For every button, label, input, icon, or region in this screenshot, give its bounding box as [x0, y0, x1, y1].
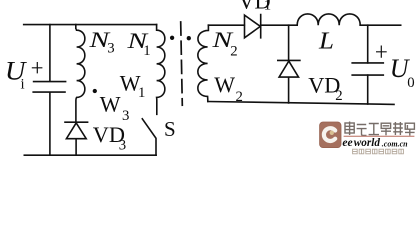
- svg-text:W: W: [214, 72, 235, 97]
- winding N2: [198, 25, 209, 101]
- transformer core (dashed): [181, 22, 183, 105]
- svg-text:1: 1: [143, 43, 150, 59]
- wire left rail lower: [49, 92, 51, 155]
- wire VD2 branch upper: [288, 25, 290, 60]
- svg-text:.com.cn: .com.cn: [382, 139, 408, 148]
- plus sign output: [376, 46, 387, 58]
- capacitor Ci input plates: [33, 82, 65, 93]
- switch S blade: [142, 119, 156, 155]
- svg-text:3: 3: [119, 137, 126, 153]
- svg-text:W: W: [100, 92, 121, 117]
- svg-text:1: 1: [264, 0, 271, 13]
- wire secondary bottom rail: [208, 102, 394, 105]
- label W2: [214, 72, 243, 105]
- svg-text:world: world: [354, 137, 381, 149]
- inductor L: [297, 14, 360, 25]
- svg-text:i: i: [21, 77, 25, 93]
- diode VD3: [65, 122, 88, 155]
- wire VD1 to inductor: [261, 24, 298, 26]
- label N3: [88, 27, 115, 57]
- label S: [164, 117, 176, 141]
- svg-text:S: S: [164, 117, 176, 141]
- label L: [318, 28, 334, 55]
- label Uo: [390, 54, 415, 91]
- label VD3: [93, 122, 126, 154]
- svg-text:2: 2: [230, 44, 237, 60]
- label N2: [211, 27, 238, 60]
- label W1: [120, 71, 146, 102]
- diode VD2: [278, 60, 300, 103]
- label VD1: [238, 0, 271, 13]
- label W3: [100, 92, 130, 125]
- diode VD1: [245, 15, 261, 38]
- watermark red underline: [344, 136, 415, 137]
- node dot W2 polarity: [187, 36, 191, 40]
- svg-text:2: 2: [335, 88, 342, 104]
- label VD2: [308, 73, 343, 105]
- label Ui: [5, 57, 28, 93]
- watermark eeworld.com.cn: [342, 136, 408, 149]
- watermark chinese title 电子工程世界: [345, 122, 415, 136]
- wire top-left rail: [24, 24, 157, 26]
- wire inductor to output terminal: [360, 24, 401, 26]
- wire output cap branch lower: [367, 75, 369, 104]
- svg-text:1: 1: [138, 85, 145, 101]
- node dot W3 polarity: [93, 89, 97, 93]
- winding N3: [76, 25, 85, 122]
- wire left rail upper: [49, 25, 51, 81]
- svg-text:ee: ee: [342, 136, 352, 149]
- svg-text:L: L: [318, 28, 334, 55]
- plus sign input: [32, 62, 43, 73]
- capacitor Co output plates: [352, 63, 383, 75]
- node dot W1 polarity: [170, 36, 174, 40]
- svg-text:2: 2: [236, 89, 243, 105]
- wire secondary top rail left of VD1: [208, 24, 244, 26]
- label N1: [126, 28, 151, 59]
- watermark slogan small characters: [353, 149, 404, 154]
- wire output cap branch upper: [367, 25, 369, 63]
- wire bottom-left rail: [24, 154, 156, 156]
- winding N1: [157, 25, 165, 115]
- svg-text:3: 3: [107, 41, 114, 57]
- watermark eeworld logo: [320, 122, 341, 148]
- svg-text:0: 0: [407, 75, 414, 91]
